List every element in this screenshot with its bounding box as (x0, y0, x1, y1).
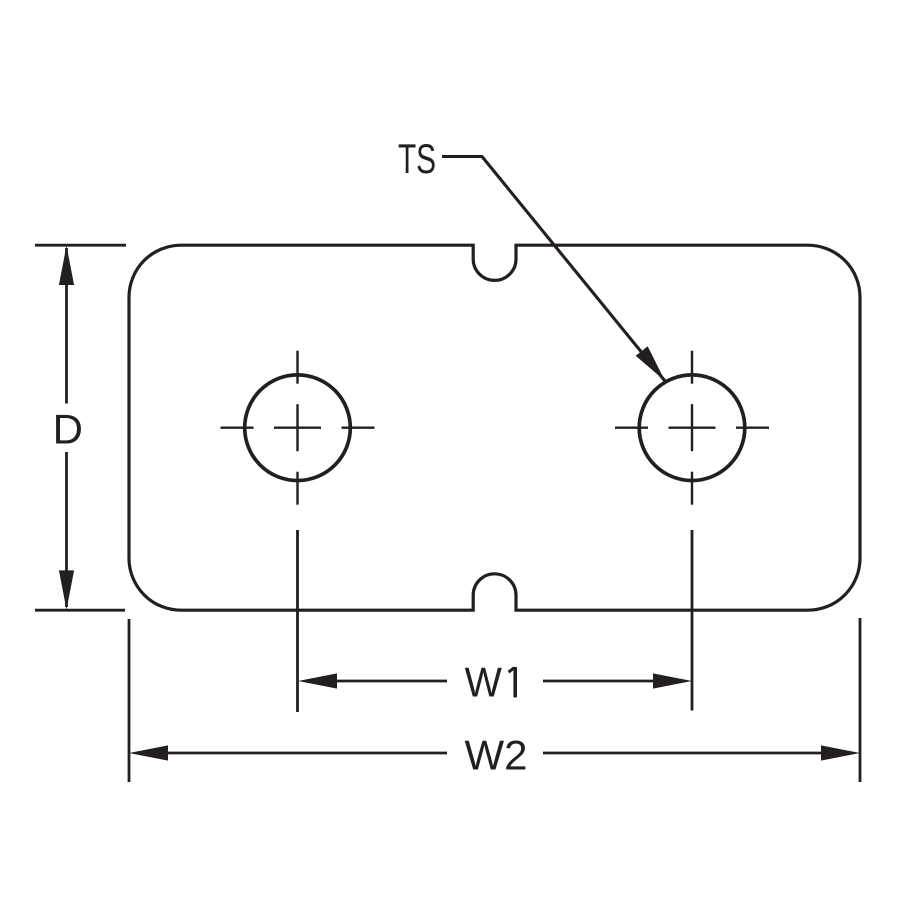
W2 arrowhead left (129, 745, 168, 760)
hole left (245, 375, 351, 481)
plate outline with top and bottom notches (129, 245, 860, 610)
dimension D line lower segment (65, 452, 68, 607)
W1 extension line left (hole centerline) (296, 530, 299, 712)
W1 dimension line right segment (543, 680, 655, 683)
TS leader line (442, 157, 665, 382)
W2 extension line left (plate edge) (128, 619, 131, 782)
svg-text:TS: TS (398, 135, 436, 182)
dimension D line upper segment (65, 248, 68, 404)
hole right (639, 375, 745, 481)
W1 arrowhead left (298, 673, 337, 688)
hole left centermark (221, 351, 375, 505)
dimension D arrowhead down (59, 570, 74, 609)
dimension D extension line bottom (35, 609, 125, 612)
W2 dimension line right segment (543, 752, 823, 755)
hole right centermark (615, 351, 769, 505)
W1 extension line right (hole centerline) (691, 530, 694, 711)
W1 dimension line left segment (335, 680, 447, 683)
svg-text:W: W (465, 658, 503, 705)
W2 arrowhead right (821, 745, 860, 760)
svg-text:W2: W2 (465, 732, 528, 779)
dimension D arrowhead up (59, 246, 74, 285)
W2 dimension line left segment (166, 752, 447, 755)
svg-text:D: D (53, 406, 83, 453)
W2 extension line right (plate edge) (859, 618, 862, 782)
dimension D extension line top (35, 244, 126, 247)
W1 arrowhead right (653, 673, 692, 688)
TS leader arrowhead (636, 346, 665, 381)
